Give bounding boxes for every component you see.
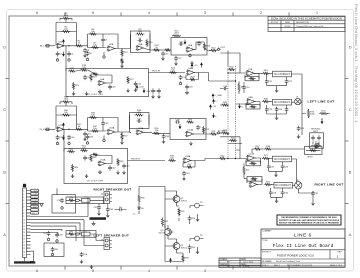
wire drv low <box>190 245 198 254</box>
svg-text:3: 3 <box>108 130 109 132</box>
svg-text:14: 14 <box>23 232 25 234</box>
wire s2 out <box>88 48 131 56</box>
svg-text:3: 3 <box>108 47 109 49</box>
op-amp U14A <box>187 131 194 136</box>
wire r69 <box>244 163 247 178</box>
svg-text:3: 3 <box>187 48 188 50</box>
capacitor C23 <box>265 107 269 112</box>
inductor L1 <box>82 198 91 202</box>
power flag -15V <box>143 88 145 91</box>
op-amp U5A <box>187 47 194 52</box>
wire ch1 mid <box>153 49 171 51</box>
power arrow drv <box>170 260 172 263</box>
resistor R73 <box>307 109 309 118</box>
svg-text:1: 1 <box>189 159 190 161</box>
svg-text:PW_LFT: PW_LFT <box>152 71 161 73</box>
resistor R27 <box>164 49 171 51</box>
ground g18 <box>274 173 277 177</box>
svg-text:U2A: U2A <box>109 43 114 46</box>
resistor R17 <box>68 70 76 72</box>
capacitor C18 <box>185 84 189 89</box>
svg-text:U4A: U4A <box>100 78 105 81</box>
op-amp U18A <box>250 182 257 188</box>
power flag s4 <box>191 66 193 69</box>
resistor R46 <box>89 116 97 118</box>
wire pwr stage <box>149 72 186 74</box>
svg-text:COMPANY:: COMPANY: <box>262 230 272 233</box>
svg-text:3: 3 <box>184 159 185 161</box>
feedback box U18 <box>247 177 262 182</box>
wire r43 stem <box>60 102 72 106</box>
svg-text:U14A: U14A <box>188 129 194 132</box>
resistor R61 <box>80 149 88 151</box>
svg-text:DESCRIPTION: DESCRIPTION <box>296 22 310 24</box>
svg-text:13: 13 <box>23 229 25 231</box>
svg-text:3: 3 <box>248 156 249 158</box>
diode D5 <box>118 208 123 212</box>
capacitor C52 <box>47 231 51 236</box>
capacitor C39 <box>175 120 180 124</box>
resistor R51b <box>210 133 218 135</box>
ground left box <box>310 133 324 148</box>
resistor R91 <box>178 208 180 217</box>
jack J6 right out <box>295 182 302 189</box>
resistor R36 <box>262 100 270 102</box>
stage4 box ch2 <box>170 119 206 140</box>
svg-text:B: B <box>3 170 6 175</box>
capacitor C15 <box>83 75 87 80</box>
svg-text:3: 3 <box>99 81 100 83</box>
wire u6 to bus <box>228 80 236 82</box>
wire pwr2 feed <box>205 158 247 160</box>
svg-text:U17A: U17A <box>249 153 255 156</box>
resistor R40 <box>219 157 227 159</box>
transistor Q3 <box>173 243 180 250</box>
feedback loop U1 <box>56 23 77 46</box>
svg-text:12: 12 <box>23 226 25 228</box>
ground g8 <box>99 90 101 92</box>
svg-text:1: 1 <box>255 183 256 185</box>
wire j6 <box>293 184 295 186</box>
resistor R26 <box>153 49 161 51</box>
capacitor C17 <box>179 75 183 80</box>
svg-text:IN_R: IN_R <box>40 129 45 131</box>
svg-text:SPK_L: SPK_L <box>32 213 37 215</box>
svg-text:11: 11 <box>23 223 25 225</box>
capacitor C21 <box>265 79 269 84</box>
wire box feed <box>56 188 58 195</box>
svg-text:1: 1 <box>192 48 193 50</box>
bus dashed rails <box>228 66 236 159</box>
jack J2 left out <box>295 98 301 104</box>
wire rail taps <box>220 89 228 134</box>
connector net pills <box>31 189 39 192</box>
capacitor C20 <box>242 85 246 90</box>
svg-text:2: 2 <box>188 74 189 76</box>
resistor R45 <box>75 128 83 130</box>
power arrow in box2 <box>179 124 181 127</box>
feedback R67 <box>183 161 195 168</box>
svg-text:2: 2 <box>99 164 100 166</box>
resistor R31 <box>238 83 240 92</box>
svg-text:U6A: U6A <box>189 67 194 70</box>
ground g12 <box>68 141 70 144</box>
wire u7 out <box>254 72 263 74</box>
wire fl3 out <box>292 159 297 183</box>
svg-text:OFST: OFST <box>307 157 313 159</box>
grb contents <box>306 150 321 152</box>
capacitor C63 <box>188 216 192 221</box>
resistor R47b <box>91 130 99 132</box>
proprietary notice box <box>277 215 341 225</box>
ground g17 <box>99 170 101 172</box>
svg-text:A: A <box>349 232 352 237</box>
wire to bus2 <box>220 137 240 159</box>
capacitor C26 <box>297 126 301 131</box>
ground g11 <box>57 141 59 144</box>
resistor R7b <box>91 46 99 48</box>
capacitor C16b <box>134 81 138 86</box>
ground g16 <box>85 174 88 178</box>
wire pin col down <box>30 251 34 261</box>
wire r90 <box>139 187 142 206</box>
resistor R18 <box>80 69 88 71</box>
svg-text:2: 2 <box>108 133 109 135</box>
op-amp U17A <box>248 155 255 161</box>
svg-text:1: 1 <box>141 47 142 49</box>
svg-text:NO CONNECT: NO CONNECT <box>274 73 291 76</box>
gl contents <box>311 135 315 140</box>
op-amp U11A <box>58 127 64 132</box>
jack P1 <box>195 203 200 208</box>
svg-text:+15V: +15V <box>139 87 145 89</box>
wire jack down <box>301 100 306 136</box>
capacitor C11b <box>197 41 201 46</box>
op-amp U4A <box>99 81 105 86</box>
resistor R22 <box>127 76 129 84</box>
spk filter outer box <box>52 195 76 213</box>
ground g19 <box>311 202 314 206</box>
resistor R64 <box>71 164 73 172</box>
capacitor C59 <box>80 252 84 257</box>
svg-text:B: B <box>349 170 352 175</box>
svg-text:3: 3 <box>248 100 249 102</box>
svg-text:LEFT LINE OUT: LEFT LINE OUT <box>308 100 335 104</box>
wire s4b out <box>193 133 211 135</box>
capacitor C35 <box>101 121 105 126</box>
connector J1 <box>23 188 27 258</box>
svg-text:2: 2 <box>58 130 59 132</box>
wire pwr2 <box>128 160 166 162</box>
ground g5b <box>189 53 191 56</box>
svg-text:1: 1 <box>141 131 142 133</box>
op-amp U6A <box>188 70 195 75</box>
bus junction2 <box>227 133 228 134</box>
wire r57b <box>121 132 123 141</box>
resistor R10b <box>121 49 123 57</box>
svg-text:1: 1 <box>252 72 253 74</box>
stage4 box U5 <box>171 38 207 56</box>
svg-text:L1: L1 <box>85 197 87 199</box>
capacitor C64 <box>188 245 192 250</box>
power arrow U1 up <box>63 41 65 44</box>
capacitor C62 <box>106 207 110 212</box>
svg-text:2: 2 <box>250 186 251 188</box>
inductor L2 <box>82 232 91 236</box>
power arrow U11 dn <box>63 135 65 138</box>
net pill spk R <box>75 199 79 201</box>
svg-text:16: 16 <box>23 239 25 241</box>
capacitor C22 <box>285 79 289 84</box>
svg-text:LINE 6: LINE 6 <box>294 233 312 238</box>
capacitor C37 <box>136 119 141 123</box>
capacitor C34 <box>83 131 87 136</box>
op-amp U2A <box>108 46 115 51</box>
op-amp U15A <box>99 161 105 166</box>
svg-text:U5A: U5A <box>188 44 193 47</box>
svg-text:L2: L2 <box>85 230 87 232</box>
svg-text:U7A: U7A <box>248 68 253 71</box>
svg-text:2: 2 <box>187 135 188 137</box>
resistor R4 <box>62 30 71 32</box>
svg-text:3: 3 <box>188 71 189 73</box>
svg-text:2: 2 <box>137 49 138 51</box>
svg-text:C: C <box>349 107 352 112</box>
resistor R81 <box>68 233 75 235</box>
svg-text:3: 3 <box>58 128 59 130</box>
svg-text:21: 21 <box>23 255 25 257</box>
ground below border <box>90 265 93 269</box>
svg-text:17: 17 <box>23 242 25 244</box>
svg-text:PROJECT:: PROJECT: <box>262 251 272 253</box>
capacitor C61 <box>97 205 101 210</box>
svg-text:DATE:: DATE: <box>241 258 247 261</box>
wire c2930 <box>271 188 283 200</box>
svg-text:10: 10 <box>23 219 25 221</box>
jack J4 <box>110 195 113 202</box>
capacitor C16 <box>108 84 112 89</box>
wire c35 <box>102 118 104 132</box>
stage3 box ch2 <box>130 113 150 129</box>
ground g5 <box>190 61 193 65</box>
wire s3b loop <box>130 115 153 132</box>
resistor R12 <box>172 35 181 37</box>
wire chain L <box>66 234 104 241</box>
svg-text:D: D <box>349 45 352 50</box>
ground g14 <box>189 142 192 146</box>
resistor R38 <box>264 148 272 150</box>
svg-text:3: 3 <box>58 44 59 46</box>
wire c6162 <box>99 204 108 214</box>
feedback loop U2 <box>88 34 119 49</box>
svg-text:RIGHT SPEAKER OUT: RIGHT SPEAKER OUT <box>94 188 132 192</box>
feedback loop U11 <box>56 106 77 129</box>
svg-text:PROPERTY OF LINE 6 INC. ANY R: PROPERTY OF LINE 6 INC. ANY REPRODUCTION… <box>279 219 340 222</box>
capacitor C4 <box>83 48 87 53</box>
svg-text:MJE200: MJE200 <box>181 201 187 203</box>
resistor R43 <box>62 101 70 103</box>
net arrow dn1 <box>321 119 323 122</box>
resistor R39 <box>221 132 229 134</box>
capacitor C12 <box>174 56 178 61</box>
power arrow in box <box>184 40 186 43</box>
feedback box U17 <box>246 161 261 166</box>
svg-text:19: 19 <box>23 248 25 250</box>
power arrow LG <box>212 96 214 99</box>
resistor R74 <box>319 112 328 114</box>
capacitor C27 <box>267 164 271 169</box>
svg-text:1: 1 <box>191 133 192 135</box>
net arrow RIGHT <box>217 132 220 134</box>
ground g6b <box>126 89 129 93</box>
capacitor C24 <box>275 107 279 112</box>
power flag s5 <box>201 65 203 68</box>
svg-text:3: 3 <box>250 183 251 185</box>
ground g23 <box>196 250 199 254</box>
junction dots U1 <box>63 45 64 46</box>
wire j3 in <box>84 231 104 246</box>
svg-text:WITHOUT THE WRITTEN PERMISSION: WITHOUT THE WRITTEN PERMISSION OF LINE 6… <box>279 222 340 224</box>
svg-text:U13A: U13A <box>138 127 144 130</box>
filter box FL2 <box>273 99 292 105</box>
svg-text:3: 3 <box>99 162 100 164</box>
net arrow L- <box>213 113 215 116</box>
gnd flag triangle <box>31 202 42 204</box>
svg-text:NO CONNECT: NO CONNECT <box>274 101 291 104</box>
wire bus mid <box>236 81 248 104</box>
svg-text:1: 1 <box>103 82 104 84</box>
resistor R11b <box>121 58 123 65</box>
resistor R69 <box>243 166 245 175</box>
ground g13 <box>103 138 105 141</box>
svg-text:1: 1 <box>253 157 254 159</box>
wire r10b <box>121 49 123 65</box>
capacitor C3 <box>67 51 71 56</box>
ground g21 <box>93 222 95 224</box>
svg-text:NO CONNECT: NO CONNECT <box>275 184 292 187</box>
capacitor C31 <box>311 191 315 196</box>
svg-text:PW_RGT: PW_RGT <box>131 159 141 161</box>
capacitor C43 <box>122 163 126 168</box>
svg-text:FILENAME:: FILENAME: <box>262 260 272 263</box>
power flag +15V <box>136 87 138 90</box>
svg-text:MJE210: MJE210 <box>159 233 165 235</box>
svg-text:L-: L- <box>215 116 217 118</box>
svg-text:D: D <box>3 45 6 50</box>
wire r73b <box>308 109 310 118</box>
svg-text:U3A: U3A <box>138 43 143 46</box>
svg-text:ECO NO: ECO NO <box>271 22 279 24</box>
wire c2728 <box>269 158 283 173</box>
svg-text:ECNs INCLUDED IN THIS SCHEMATI: ECNs INCLUDED IN THIS SCHEMATIC/PCB REVI… <box>271 16 342 20</box>
svg-text:7: 7 <box>23 210 24 212</box>
svg-text:Flex II Line Out Board_1.sch: Flex II Line Out Board_1.sch <box>276 260 300 263</box>
wire pwr2 out <box>195 159 205 161</box>
lower box ch1 <box>66 69 149 97</box>
svg-text:Flex II Line Out Board_1.sch-1: Flex II Line Out Board_1.sch-1 - Thu May… <box>354 4 359 123</box>
svg-text:5: 5 <box>23 203 24 205</box>
net pill spk L <box>75 233 79 235</box>
net arrow LEFT <box>217 48 220 50</box>
ground g20b <box>97 212 100 216</box>
capacitor C6b <box>86 51 90 56</box>
svg-text:DRAWN:: DRAWN: <box>220 258 228 261</box>
svg-text:3: 3 <box>137 46 138 48</box>
op-amp U1A <box>58 43 64 48</box>
transistor Q2 <box>165 229 172 236</box>
wire ch2 mid <box>152 132 170 134</box>
resistor R50b <box>186 121 194 123</box>
svg-text:1: 1 <box>253 100 254 102</box>
capacitor C56 <box>60 198 64 203</box>
capacitor C19 <box>222 87 227 91</box>
ground g3 <box>103 54 105 57</box>
capacitor C5 <box>101 37 105 42</box>
ground g6 <box>72 92 75 96</box>
wire r93 <box>179 253 183 262</box>
ground g4 <box>174 62 177 66</box>
feedback box U7 <box>245 76 259 80</box>
wire s2b out <box>88 131 130 139</box>
revision history table <box>268 17 345 32</box>
svg-text:REV: 2: REV: 2 <box>274 265 280 267</box>
capacitor C25 <box>285 107 289 112</box>
ground g15b <box>116 171 119 175</box>
resistor R30 <box>228 68 236 70</box>
resistor R66 <box>168 159 176 161</box>
svg-text:18: 18 <box>23 245 25 247</box>
lower box ch2 <box>64 149 128 184</box>
resistor R60 <box>67 150 75 152</box>
svg-text:2: 2 <box>99 84 100 86</box>
wire mid drv <box>179 209 198 224</box>
wire lowbox2 <box>64 129 112 163</box>
net arrow L+ <box>213 101 215 104</box>
ground g13a <box>87 140 89 143</box>
svg-text:L_GND: L_GND <box>215 95 223 97</box>
svg-text:6: 6 <box>23 207 24 209</box>
wire c232425 <box>267 105 287 117</box>
capacitor C38 <box>162 134 166 139</box>
svg-text:3: 3 <box>247 72 248 74</box>
svg-text:THE INFORMATION CONTAINED IN T: THE INFORMATION CONTAINED IN THIS DRAWIN… <box>281 216 337 219</box>
power arrow U1 dn <box>63 52 65 55</box>
wire chain R <box>66 199 104 201</box>
resistor R6 <box>89 33 97 35</box>
svg-text:2: 2 <box>23 194 24 196</box>
resistor R21 <box>72 82 74 90</box>
wire c31 <box>298 189 313 202</box>
svg-text:1: 1 <box>62 44 63 46</box>
capacitor C42 <box>108 165 112 170</box>
svg-text:2.12.02: 2.12.02 <box>243 266 249 268</box>
svg-text:8: 8 <box>23 213 24 215</box>
resistor R44 <box>62 114 71 116</box>
wire q1 <box>165 191 179 206</box>
svg-text:OPT: DO NOT STUFF: OPT: DO NOT STUFF <box>87 94 103 96</box>
op-amp U16A <box>184 158 191 163</box>
wire c2122 <box>267 73 287 89</box>
svg-text:2: 2 <box>137 133 138 135</box>
connector ground bar <box>24 258 26 262</box>
wire u1 out <box>65 45 89 47</box>
feedback loop U12 <box>88 118 119 133</box>
op-amp U3A <box>137 46 143 51</box>
svg-text:A: A <box>3 232 6 237</box>
svg-text:3: 3 <box>23 197 24 199</box>
ground g3a <box>87 57 89 60</box>
capacitor C14 <box>157 88 161 93</box>
